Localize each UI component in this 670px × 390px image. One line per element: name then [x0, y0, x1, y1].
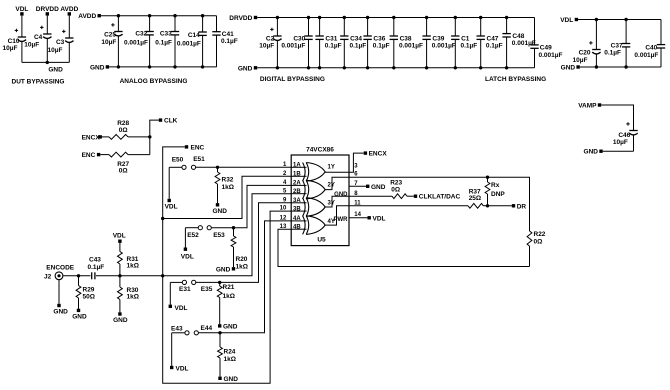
jumper E43 [171, 325, 189, 335]
wire : R28/R27 junction to CLK [148, 120, 159, 155]
resistor R23 0ohm [390, 180, 414, 199]
svg-text:0.1µF: 0.1µF [325, 43, 342, 50]
svg-text:J2: J2 [44, 273, 52, 280]
svg-text:GND: GND [584, 149, 599, 156]
ground GND (R21) [218, 323, 238, 330]
svg-text:ENCX: ENCX [82, 134, 101, 141]
svg-text:C46: C46 [618, 132, 630, 139]
svg-text:GND: GND [223, 323, 238, 330]
svg-text:ENC: ENC [82, 152, 96, 159]
svg-text:C10: C10 [8, 38, 20, 45]
label LATCH BYPASSING [485, 76, 546, 83]
node CLK [159, 118, 178, 125]
capacitor C34 [340, 16, 366, 70]
svg-text:0.001µF: 0.001µF [634, 52, 658, 59]
svg-text:CLKLAT/DAC: CLKLAT/DAC [419, 194, 461, 201]
jumper E51 [191, 156, 217, 169]
wire : bottom loop to U5 pin 10 [163, 211, 292, 383]
wire : pin 6 (2Y) to feedback [349, 176, 530, 232]
svg-text:GND: GND [224, 376, 239, 383]
svg-text:ENC: ENC [191, 144, 205, 151]
svg-text:VDL: VDL [560, 17, 573, 24]
svg-text:0.001µF: 0.001µF [432, 43, 456, 50]
svg-text:1kΩ: 1kΩ [222, 184, 234, 191]
jumper E53 [207, 226, 233, 239]
svg-text:E44: E44 [201, 325, 213, 332]
wire : digital bottom rail [257, 67, 534, 69]
ground GND (analog) [90, 64, 109, 71]
svg-text:R32: R32 [222, 177, 234, 184]
svg-text:ANALOG BYPASSING: ANALOG BYPASSING [120, 78, 188, 85]
resistor R29 50ohm [76, 276, 95, 309]
capacitor C37 [604, 18, 630, 69]
label GND (U5 internal) [334, 192, 348, 198]
svg-text:GND: GND [238, 65, 253, 72]
svg-text:10µF: 10µF [48, 47, 63, 54]
pin 12 (4A) [280, 216, 307, 223]
svg-text:C48: C48 [512, 33, 524, 40]
wire : pin 11 to R37 [349, 205, 468, 207]
svg-text:0.1µF: 0.1µF [221, 38, 238, 45]
gate 2 (XOR 2A/2B -> 2Y) [303, 177, 349, 199]
svg-text:0Ω: 0Ω [119, 167, 128, 174]
svg-text:VDL: VDL [176, 366, 189, 373]
resistor R22 0ohm [527, 231, 546, 267]
jumper E44 [194, 325, 220, 335]
pin 1 (1A) [283, 162, 307, 169]
svg-text:0.001µF: 0.001µF [124, 39, 148, 46]
node VDL (pin 14) [368, 215, 386, 222]
svg-text:1kΩ: 1kΩ [224, 356, 236, 363]
svg-text:LATCH BYPASSING: LATCH BYPASSING [485, 76, 546, 83]
wire : R22 feedback to U5 pin 13 [278, 229, 530, 266]
svg-text:74VCX86: 74VCX86 [306, 146, 334, 153]
capacitor C31 [315, 16, 341, 70]
pin 5 (2B) [283, 188, 307, 195]
jumper E35 [192, 280, 220, 293]
node VDL [15, 6, 28, 15]
pin 3 (U5 output side) [354, 163, 358, 169]
node ENCX [82, 134, 102, 141]
svg-text:E35: E35 [201, 286, 213, 293]
svg-text:2Y: 2Y [328, 183, 335, 189]
svg-text:VAMP: VAMP [578, 103, 597, 110]
resistor R31 1k [118, 243, 139, 276]
svg-text:C2: C2 [266, 35, 275, 42]
svg-text:GND: GND [213, 208, 228, 215]
jumper E52 [185, 226, 202, 239]
svg-text:U5: U5 [317, 237, 326, 244]
svg-text:VDL: VDL [181, 254, 194, 261]
wire : VDL top rail [578, 19, 661, 21]
resistor R27 0ohm [100, 152, 150, 174]
ground GND (R24) [218, 376, 238, 383]
ground GND (J2 shield) [53, 280, 68, 316]
pin 13 (4B) [280, 224, 307, 231]
capacitor C10 [3, 16, 27, 63]
svg-text:0.1µF: 0.1µF [350, 43, 367, 50]
svg-text:R23: R23 [390, 180, 402, 187]
svg-text:1kΩ: 1kΩ [127, 294, 139, 301]
pin 4 (2A) [283, 180, 307, 187]
svg-text:E51: E51 [193, 156, 205, 163]
svg-text:C43: C43 [89, 256, 101, 263]
wire : E51 to U5 pin 1 [216, 166, 291, 169]
svg-text:1Y: 1Y [328, 164, 335, 170]
svg-text:0.1µF: 0.1µF [155, 39, 172, 46]
capacitor C39 [422, 16, 455, 70]
svg-text:C30: C30 [293, 35, 305, 42]
svg-text:DR: DR [517, 203, 527, 210]
svg-text:AVDD: AVDD [60, 6, 78, 13]
ground GND (VAMP) [584, 149, 634, 156]
svg-text:0Ω: 0Ω [119, 127, 128, 134]
wire : J2 to C43 [63, 274, 91, 277]
svg-text:GND: GND [371, 184, 386, 191]
wire : E53 to U5 pin 4 [232, 185, 291, 229]
svg-text:0.1µF: 0.1µF [604, 49, 621, 56]
capacitor C2 [259, 16, 281, 70]
label DIGITAL BYPASSING [260, 76, 325, 83]
connector J2 [44, 272, 63, 280]
svg-text:R21: R21 [223, 284, 235, 291]
svg-text:C38: C38 [400, 35, 412, 42]
capacitor C43 0.1uF [88, 256, 105, 279]
label PWR (U5 internal) [334, 217, 349, 223]
capacitor C3 [48, 16, 74, 63]
svg-text:3Y: 3Y [328, 201, 335, 207]
svg-text:0.001µF: 0.001µF [281, 43, 305, 50]
node VDL (E31) [169, 282, 188, 312]
svg-text:GND: GND [53, 308, 68, 315]
svg-text:C25: C25 [104, 32, 116, 39]
svg-text:0Ω: 0Ω [534, 239, 543, 246]
svg-text:0.001µF: 0.001µF [512, 40, 536, 47]
wire : E44 to U5 pin 12 [218, 221, 291, 335]
svg-text:0.1µF: 0.1µF [461, 43, 478, 50]
svg-text:10µF: 10µF [3, 45, 18, 52]
pin 14 (U5 output side) [354, 212, 361, 218]
svg-text:C4: C4 [34, 34, 43, 41]
svg-text:AVDD: AVDD [78, 13, 96, 20]
capacitor C30 [281, 16, 312, 70]
wire : pin 3 to ENCX [349, 153, 364, 172]
node VDL (E43) [170, 333, 189, 373]
op chip U5 74VCX86 outline [291, 146, 349, 245]
svg-text:C32: C32 [135, 31, 147, 38]
wire : pin 8 to R23 [349, 195, 392, 197]
svg-text:12: 12 [280, 216, 287, 222]
svg-text:GND: GND [90, 64, 105, 71]
svg-text:10: 10 [280, 206, 287, 212]
capacitor C48 [502, 16, 535, 70]
node AVDD (analog rail) [78, 13, 101, 20]
svg-text:DRVDD: DRVDD [229, 15, 252, 22]
svg-text:GND: GND [72, 313, 87, 320]
svg-text:C49: C49 [540, 44, 552, 51]
svg-text:PWR: PWR [334, 217, 349, 223]
ground GND (R20) [216, 266, 235, 273]
resistor R28 0ohm [102, 120, 150, 139]
ground GND (VDL rail) [561, 65, 580, 72]
node VDL (latch rail) [560, 17, 578, 24]
svg-text:10µF: 10µF [24, 41, 39, 48]
capacitor C20 [573, 18, 601, 69]
svg-text:R20: R20 [236, 256, 248, 263]
node DRVDD [36, 6, 59, 15]
svg-text:C3: C3 [56, 39, 65, 46]
ground GND (pin 7) [366, 184, 386, 191]
resistor Rx DNP [485, 177, 505, 206]
gate 1 (XOR 1A/1B -> 1Y) [303, 163, 349, 182]
node ENCX (U5 out) [364, 151, 388, 158]
capacitor C33 [155, 14, 179, 69]
svg-text:1kΩ: 1kΩ [127, 263, 139, 270]
svg-text:Rx: Rx [491, 182, 500, 189]
wire : DUT bypass ground rail [22, 61, 69, 63]
pin 6 (U5 output side) [354, 171, 358, 177]
svg-text:ENCX: ENCX [369, 151, 388, 158]
resistor R21 1k [217, 282, 235, 324]
svg-text:C47: C47 [487, 35, 499, 42]
pin 8 (U5 output side) [354, 191, 358, 197]
wire : digital top rail [257, 17, 534, 19]
node DRVDD (digital rail) [229, 15, 257, 22]
wire : ENC vertical bus [161, 147, 185, 276]
resistor R32 1k [215, 167, 234, 203]
svg-text:E53: E53 [213, 232, 225, 239]
svg-text:VDL: VDL [373, 215, 386, 222]
svg-text:0Ω: 0Ω [391, 187, 400, 194]
svg-text:DRVDD: DRVDD [36, 6, 59, 13]
gate 4 (XOR 4A/4B -> 4Y) [303, 206, 349, 235]
pin 11 (U5 output side) [354, 200, 361, 206]
svg-text:E43: E43 [171, 325, 183, 332]
jumper E50 [169, 157, 186, 170]
svg-text:C1: C1 [461, 35, 470, 42]
capacitor C49 [530, 18, 562, 68]
node ENC (input) [82, 152, 101, 159]
pin 2 (1B) [283, 171, 307, 178]
capacitor C46 [613, 122, 638, 151]
capacitor C40 [634, 20, 665, 68]
svg-text:1kΩ: 1kΩ [236, 263, 248, 270]
node VDL (R31) [113, 233, 126, 243]
resistor R30 1k [118, 276, 139, 313]
svg-text:C41: C41 [222, 31, 234, 38]
svg-text:1kΩ: 1kΩ [223, 293, 235, 300]
svg-text:DNP: DNP [491, 191, 505, 198]
svg-text:10µF: 10µF [613, 139, 628, 146]
node ENC (to gate) [185, 144, 205, 151]
svg-text:E52: E52 [187, 232, 199, 239]
wire : VDL bottom rail [580, 66, 661, 68]
ground GND (DUT bypass) [46, 61, 64, 74]
jumper E31 [170, 280, 191, 293]
node VDL (E50) [165, 167, 178, 210]
node AVDD [60, 6, 78, 15]
wire : E35 to U5 pin 9 [218, 203, 291, 284]
svg-text:10µF: 10µF [573, 57, 588, 64]
node CLKLAT/DAC [414, 194, 461, 201]
svg-text:C14: C14 [188, 32, 200, 39]
wire : analog bottom rail [109, 66, 216, 68]
label ENCODE [46, 265, 74, 272]
svg-text:0.001µF: 0.001µF [539, 52, 563, 59]
svg-text:VDL: VDL [175, 305, 188, 312]
svg-text:VDL: VDL [113, 233, 126, 240]
svg-text:ENCODE: ENCODE [46, 265, 74, 272]
ground GND (R32) [213, 203, 228, 215]
node VAMP [578, 103, 601, 110]
svg-text:25Ω: 25Ω [469, 195, 481, 202]
svg-text:CLK: CLK [164, 118, 178, 125]
gate 3 (XOR 3A/3B -> 3Y) [303, 196, 349, 216]
pin 7 (U5 output side) [354, 181, 358, 187]
svg-text:E50: E50 [172, 157, 184, 164]
svg-text:C31: C31 [325, 35, 337, 42]
svg-text:0.1µF: 0.1µF [88, 264, 105, 271]
label DUT BYPASSING [12, 78, 65, 85]
svg-text:GND: GND [334, 192, 348, 198]
pin 9 (3A) [283, 197, 307, 204]
label ANALOG BYPASSING [120, 78, 188, 85]
svg-text:C33: C33 [160, 31, 172, 38]
svg-text:10µF: 10µF [101, 39, 116, 46]
capacitor C41 [212, 16, 237, 67]
node DR [512, 203, 527, 210]
svg-text:GND: GND [216, 266, 231, 273]
capacitor C47 [477, 16, 503, 70]
ground GND (digital) [238, 65, 257, 72]
svg-text:C36: C36 [373, 35, 385, 42]
resistor R20 1k [231, 228, 248, 271]
wire : pin 7 stub [349, 185, 366, 187]
svg-text:C20: C20 [579, 50, 591, 57]
svg-text:10µF: 10µF [259, 43, 274, 50]
svg-text:DIGITAL BYPASSING: DIGITAL BYPASSING [260, 76, 325, 83]
capacitor C14 [177, 14, 207, 69]
svg-text:0.001µF: 0.001µF [177, 40, 201, 47]
resistor R24 1k [218, 333, 236, 377]
svg-text:R24: R24 [224, 349, 236, 356]
pin 10 (3B) [280, 206, 307, 213]
wire : VAMP to C46 [601, 105, 633, 131]
svg-text:C39: C39 [432, 35, 444, 42]
capacitor C1 [451, 16, 477, 70]
ground GND (R29) [72, 309, 87, 321]
svg-text:0.1µF: 0.1µF [486, 43, 503, 50]
capacitor C38 [390, 16, 423, 70]
svg-text:R22: R22 [534, 231, 546, 238]
svg-text:GND: GND [48, 66, 63, 73]
resistor R37 25ohm [468, 188, 512, 208]
capacitor C25 [101, 14, 122, 69]
svg-text:0.1µF: 0.1µF [373, 43, 390, 50]
wire : pin 14 stub [349, 217, 368, 219]
capacitor C4 [24, 16, 51, 63]
wire : main encode rail to U5 pin 5 [163, 194, 292, 276]
wire : C43 to rail junction [96, 274, 164, 277]
wire : analog top rail [101, 15, 217, 17]
ground GND (R30) [113, 312, 128, 324]
svg-text:GND: GND [561, 65, 576, 72]
svg-text:VDL: VDL [15, 6, 28, 13]
svg-text:0.001µF: 0.001µF [399, 43, 423, 50]
svg-text:DUT BYPASSING: DUT BYPASSING [12, 78, 65, 85]
node VDL (E52) [181, 228, 194, 261]
svg-text:50Ω: 50Ω [83, 293, 95, 300]
svg-text:E31: E31 [179, 286, 191, 293]
capacitor C32 [124, 14, 154, 69]
svg-text:GND: GND [113, 317, 128, 324]
svg-text:C40: C40 [645, 45, 657, 52]
svg-text:VDL: VDL [165, 204, 178, 211]
svg-text:C34: C34 [350, 35, 362, 42]
wire : ENC branch to U5 pin 2 [163, 176, 292, 218]
capacitor C36 [363, 16, 389, 70]
